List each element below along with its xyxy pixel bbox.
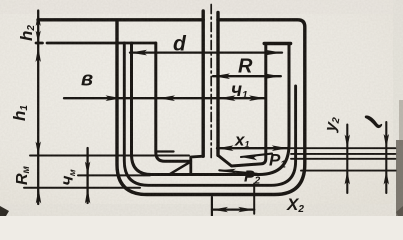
label rm bbox=[57, 168, 77, 187]
rm top arrow bbox=[85, 162, 90, 176]
Rm bottom arrow bbox=[36, 188, 41, 204]
wire: x2 dimension line bbox=[212, 209, 254, 211]
h2 bottom arrow bbox=[36, 31, 41, 43]
y2 bottom arrow bbox=[345, 171, 350, 185]
x1 right arrow bbox=[272, 145, 289, 151]
wire: R dimension line bbox=[213, 75, 281, 77]
wire: left limb bore left edge V2 + bore bottom edge + right limb outer edge bbox=[132, 43, 290, 175]
wire: left funnel slant bbox=[170, 162, 191, 175]
wire: bath rim line y=43 bbox=[36, 42, 156, 45]
wire: right extension line y=170.6 bbox=[301, 170, 396, 172]
r1 right arrow bbox=[249, 95, 266, 101]
p1 arrow bbox=[241, 156, 258, 161]
wire: right extension line y=153.9 bbox=[291, 153, 396, 155]
wire: h2/h1/Rm dimension vertical x=38 bbox=[37, 11, 39, 205]
wire: rm dimension vertical x=87.6 bbox=[86, 148, 88, 203]
wire: x1 dimension line bbox=[217, 147, 288, 149]
label y2 bbox=[322, 115, 342, 134]
p2 arrow bbox=[219, 169, 236, 174]
wire: right extension line y=148 bbox=[288, 147, 395, 149]
wire: Rm bottom extension line H2 bbox=[24, 187, 140, 189]
wire: rm extension line H1.5 bbox=[78, 174, 150, 176]
wire: shell inner lining contour bbox=[124, 43, 295, 185]
wire: x2 right extension vertical bbox=[253, 184, 255, 214]
wire: central channel right wall bbox=[216, 13, 219, 156]
wire: y2 dimension vertical bbox=[346, 125, 348, 194]
scan artifact: bottom-right corner mark bbox=[396, 206, 403, 216]
y2 top arrow bbox=[345, 135, 350, 149]
scan artifact: bottom-left smudge bbox=[0, 206, 9, 216]
x2 left arrow bbox=[212, 207, 228, 212]
l bottom arrow bbox=[384, 171, 389, 185]
label Rm bbox=[14, 165, 32, 185]
wire: x2 extension vertical at centerline bbox=[211, 197, 213, 216]
scan artifact: right edge streak bbox=[396, 140, 403, 216]
label h2 bbox=[17, 25, 37, 41]
wire: Rm extension line H1 bbox=[30, 155, 189, 157]
wire: p2 leader line bbox=[219, 170, 257, 174]
wire: right extension line y=158.8 bbox=[291, 158, 396, 160]
rm bottom arrow bbox=[85, 188, 90, 204]
l top arrow bbox=[384, 134, 389, 148]
h2 top arrow bbox=[36, 12, 41, 26]
d right arrow bbox=[265, 50, 282, 56]
R right arrow bbox=[264, 73, 281, 79]
B right-side arrow (points left) bbox=[158, 95, 175, 101]
label h1 bbox=[10, 105, 30, 121]
wire: right limb bore left edge + bore top edge right + funnel slant bbox=[218, 44, 266, 167]
wire: B / r1 dimension line bbox=[64, 97, 266, 99]
r1 left arrow bbox=[219, 95, 236, 101]
wire: l dimension vertical bbox=[385, 122, 387, 193]
wire: short ledge line left of channel bbox=[157, 150, 174, 152]
wire: d dimension line bbox=[130, 51, 282, 53]
wire: furnace shell outer contour bbox=[38, 20, 305, 195]
wire: left limb bore right edge V3 + bore top edge left bbox=[156, 43, 191, 161]
B left-side arrow (points right) bbox=[106, 95, 122, 101]
h1 top arrow bbox=[36, 47, 41, 63]
wire: central channel left wall bbox=[201, 11, 204, 156]
node centerline (dash-dot axis) bbox=[210, 5, 212, 159]
x2 right arrow bbox=[238, 207, 254, 212]
x1 left arrow bbox=[217, 145, 234, 151]
wire: right limb cap bbox=[264, 42, 290, 45]
wire: p1 leader line bbox=[241, 154, 272, 157]
h1 bottom arrow bbox=[36, 142, 41, 156]
d left arrow bbox=[130, 50, 147, 56]
label l (script ell) bbox=[365, 115, 382, 128]
R left arrow bbox=[213, 73, 230, 79]
wire: channel mouth ledge and step bbox=[191, 156, 203, 172]
